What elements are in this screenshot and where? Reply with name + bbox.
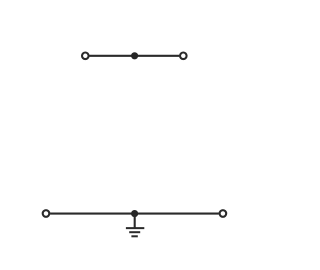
wire: ground stub bbox=[134, 214, 136, 229]
terminal circle: top left bbox=[82, 53, 89, 60]
terminal circle: top right bbox=[180, 53, 187, 60]
ground bbox=[126, 228, 144, 236]
terminal circle: bottom right bbox=[220, 210, 227, 217]
terminal circle: bottom left bbox=[43, 210, 50, 217]
wire: bottom jumper bbox=[50, 213, 219, 215]
junction dot: top bbox=[131, 52, 138, 59]
wire: top jumper bbox=[89, 55, 179, 57]
junction dot: bottom bbox=[131, 210, 138, 217]
